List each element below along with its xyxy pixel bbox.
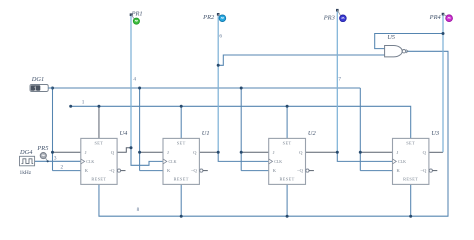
pin ~Q bubble and stub of U1 <box>200 169 208 172</box>
wire RESET pin drop U1 <box>180 184 182 216</box>
junction node at 181.2,106.3 <box>180 105 183 108</box>
wire Q output of U4 step up to PR1 node (net 4) <box>117 148 131 153</box>
wire SET pin drop U1 <box>180 106 182 138</box>
svg-text:7: 7 <box>338 76 341 82</box>
svg-text:6: 6 <box>219 34 222 40</box>
wire net-6 branch to NAND input <box>218 55 384 65</box>
svg-text:CLK: CLK <box>86 159 94 164</box>
junction node at 337.3,152.3 <box>336 151 339 154</box>
pin ~Q bubble and stub of U3 <box>429 169 437 172</box>
svg-text:~Q: ~Q <box>109 168 115 173</box>
flip-flop U3 <box>393 138 429 184</box>
junction node at 98.95,106.3 <box>97 105 100 108</box>
probe PR2 (blue) <box>217 13 226 22</box>
wire DG1 constant-1 net horizontal (net 2) <box>48 87 360 89</box>
svg-text:SET: SET <box>94 140 103 145</box>
junction node at 443,33.5 <box>442 32 445 35</box>
wire Q output of U1 (net 6) <box>199 151 218 153</box>
wire clock net from DG4 to CLK of U4 (net 3) <box>35 160 81 162</box>
junction node at 70.7,106.3 <box>69 105 72 108</box>
wire net-6 to CLK of U2 <box>218 152 269 161</box>
svg-text:RESET: RESET <box>91 176 106 181</box>
svg-text:J: J <box>273 150 275 155</box>
svg-text:RESET: RESET <box>174 176 189 181</box>
svg-text:PR3: PR3 <box>323 15 335 22</box>
wire net-5 branch to NAND top input <box>375 34 443 49</box>
svg-text:CLK: CLK <box>398 159 406 164</box>
probe PR5 (grey) on clock wire <box>40 153 49 163</box>
junction node at 139.6,152.3 <box>138 151 141 154</box>
flip-flop U1 <box>163 138 199 184</box>
probe PR3 (indigo) <box>336 9 346 22</box>
svg-text:~Q: ~Q <box>297 168 303 173</box>
svg-text:U1: U1 <box>202 130 210 137</box>
svg-text:DG1: DG1 <box>31 76 44 83</box>
svg-text:~Q: ~Q <box>420 168 426 173</box>
svg-text:SET: SET <box>177 140 186 145</box>
svg-text:PR4: PR4 <box>429 14 442 21</box>
wire net-2 vertical drop to U4 J/K <box>52 88 54 171</box>
pin ~Q bubble and stub of U4 <box>117 169 125 172</box>
wire RESET pin drop U2 <box>286 184 288 216</box>
wire PR3 probe vertical <box>336 10 338 152</box>
svg-text:8: 8 <box>137 207 140 213</box>
svg-text:U4: U4 <box>120 130 129 137</box>
junction node at 218.2,152.3 <box>217 151 220 154</box>
clock source DG4 <box>20 156 35 166</box>
svg-text:CLK: CLK <box>274 159 282 164</box>
wire RESET net (net 8) with NAND output riser <box>99 51 448 216</box>
wire K input of U3 <box>360 170 392 172</box>
junction node at 181.2,216.2 <box>180 215 183 218</box>
svg-text:RESET: RESET <box>280 176 295 181</box>
junction node at 218.2,65.3 <box>217 64 220 67</box>
svg-text:DG4: DG4 <box>19 149 33 156</box>
junction node at 241.2,88 <box>240 87 243 90</box>
svg-text:2: 2 <box>61 164 64 170</box>
svg-text:PR5: PR5 <box>36 145 48 152</box>
svg-text:J: J <box>167 150 169 155</box>
wire K input of U1 <box>140 170 163 172</box>
junction node at 241.2,152.3 <box>240 151 243 154</box>
svg-text:~Q: ~Q <box>191 168 197 173</box>
svg-text:PR2: PR2 <box>202 14 215 21</box>
wire SET pin drop U4 <box>98 106 100 138</box>
wire Q output of U3 (net 5) <box>429 151 443 153</box>
wire J input of U1 <box>140 151 163 153</box>
junction node at 131,147.8 <box>130 146 133 149</box>
flip-flop U2 <box>269 138 306 184</box>
digital constant DG1 <box>30 85 53 93</box>
wire net-7 to CLK of U3 <box>337 152 392 161</box>
junction node at 287.1,216.2 <box>286 215 289 218</box>
wire K input of U4 <box>53 170 81 172</box>
wire net-2 vertical drop to U1 J/K <box>139 88 141 171</box>
svg-text:U3: U3 <box>431 130 439 137</box>
junction node at 360.3,152.3 <box>359 151 362 154</box>
junction node at 139.6,88 <box>138 87 141 90</box>
svg-text:CLK: CLK <box>169 159 177 164</box>
junction node at 410.7,216.2 <box>409 215 412 218</box>
pin ~Q bubble and stub of U2 <box>306 169 314 172</box>
svg-text:U2: U2 <box>308 130 317 137</box>
wire RESET pin drop U3 <box>410 184 412 216</box>
wire J input of U4 <box>53 151 81 153</box>
wire Q output of U2 (net 7) <box>306 151 338 153</box>
wire K input of U2 <box>241 170 269 172</box>
wire J input of U3 <box>360 151 392 153</box>
junction node at 287.1,106.3 <box>286 105 289 108</box>
svg-text:1: 1 <box>34 86 37 92</box>
wire PR2 probe vertical <box>217 14 219 152</box>
wire SET pin drop U2 <box>286 106 288 138</box>
svg-text:J: J <box>85 150 87 155</box>
probe PR1 (green) <box>130 13 140 24</box>
wire net-2 vertical drop to U2 J/K <box>240 88 242 171</box>
wire net-4 to CLK of U1 <box>131 148 163 166</box>
svg-text:1: 1 <box>82 100 85 106</box>
svg-text:1kHz: 1kHz <box>20 170 32 176</box>
wire net-2 vertical drop to U3 J/K <box>359 88 361 171</box>
svg-text:SET: SET <box>283 140 292 145</box>
junction node at 52.5,88 <box>51 87 54 90</box>
svg-text:4: 4 <box>133 76 136 82</box>
wire PR4 probe vertical <box>442 14 444 152</box>
junction node at 52.5,152.3 <box>51 151 54 154</box>
svg-text:RESET: RESET <box>403 176 418 181</box>
wire PR1 probe vertical <box>130 15 132 148</box>
svg-text:3: 3 <box>54 155 57 161</box>
svg-text:U5: U5 <box>387 34 395 41</box>
flip-flop U4 <box>81 138 117 184</box>
svg-text:PR1: PR1 <box>131 10 143 17</box>
wire J input of U2 <box>241 151 269 153</box>
svg-text:SET: SET <box>406 140 415 145</box>
svg-text:J: J <box>397 150 399 155</box>
wire SET net horizontal (net 1) <box>71 106 411 138</box>
nand gate U5 <box>385 46 409 57</box>
probe PR4 (magenta) <box>442 13 453 22</box>
